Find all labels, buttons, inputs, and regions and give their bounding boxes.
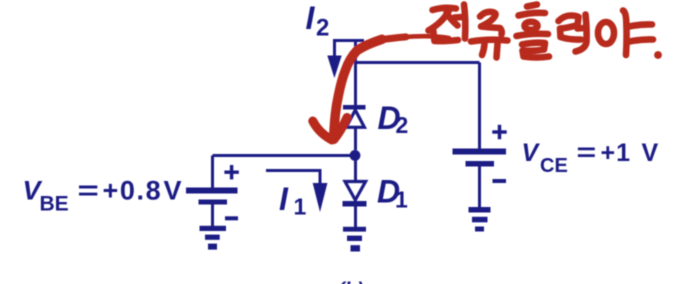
svg-text:V: V <box>522 139 541 167</box>
wire VBE to ground <box>211 205 214 227</box>
red annotation text: 러 <box>559 15 587 52</box>
ground VBE <box>200 226 227 250</box>
plus sign VBE <box>224 165 238 179</box>
battery VBE <box>186 188 238 205</box>
ground D1 (emitter) <box>343 227 366 252</box>
battery VCE <box>453 149 507 167</box>
red annotation period <box>654 51 662 59</box>
diode D1 <box>343 182 367 207</box>
svg-text:V: V <box>164 176 182 206</box>
label D1 <box>377 174 408 213</box>
red annotation text: 전 <box>429 5 466 42</box>
wire I1 hook <box>266 171 320 185</box>
svg-text:=: = <box>78 175 99 205</box>
current arrow I2 <box>327 56 341 79</box>
wire I2 hook <box>335 41 365 58</box>
plus sign VCE <box>492 125 506 139</box>
svg-text:1: 1 <box>294 194 307 220</box>
minus sign VBE <box>225 216 238 220</box>
label VBE = +0.8 V <box>23 175 182 215</box>
svg-text:I: I <box>279 181 289 217</box>
red annotation text: 류 <box>471 12 508 58</box>
red annotation arrow <box>334 36 449 138</box>
label I2 <box>306 0 330 42</box>
wire collector stub <box>354 41 357 106</box>
wire base horizontal <box>213 154 356 157</box>
red annotation text: 흘 <box>517 5 550 58</box>
current arrow I1 <box>313 183 328 212</box>
minus sign VCE <box>493 179 507 183</box>
svg-text:1: 1 <box>395 187 408 213</box>
wire VBE branch vertical <box>211 156 214 189</box>
red annotation text: 야 <box>598 11 653 56</box>
node base junction <box>350 150 361 161</box>
svg-text:I: I <box>306 0 316 36</box>
label I1 <box>279 181 307 220</box>
svg-text:CE: CE <box>540 155 568 177</box>
red arrowhead wings <box>313 118 347 141</box>
wire VCE to ground <box>478 167 481 209</box>
wire D2 to node <box>354 127 357 150</box>
svg-text:+0.8: +0.8 <box>103 176 163 206</box>
label D2 <box>378 100 409 138</box>
svg-text:+1: +1 <box>601 139 632 167</box>
label VCE = +1 V <box>522 139 659 177</box>
diode D2 <box>343 105 366 127</box>
svg-text:BE: BE <box>40 193 69 216</box>
wire node to D1 <box>354 159 357 182</box>
wire D1 to ground <box>354 207 357 228</box>
ground VCE <box>469 207 491 232</box>
svg-text:=: = <box>577 139 597 167</box>
svg-text:(b): (b) <box>338 280 364 284</box>
svg-text:2: 2 <box>396 112 409 138</box>
wire top horizontal <box>356 61 480 64</box>
svg-text:2: 2 <box>316 15 329 42</box>
wire VCE branch vertical <box>478 63 481 150</box>
svg-text:V: V <box>642 139 659 167</box>
